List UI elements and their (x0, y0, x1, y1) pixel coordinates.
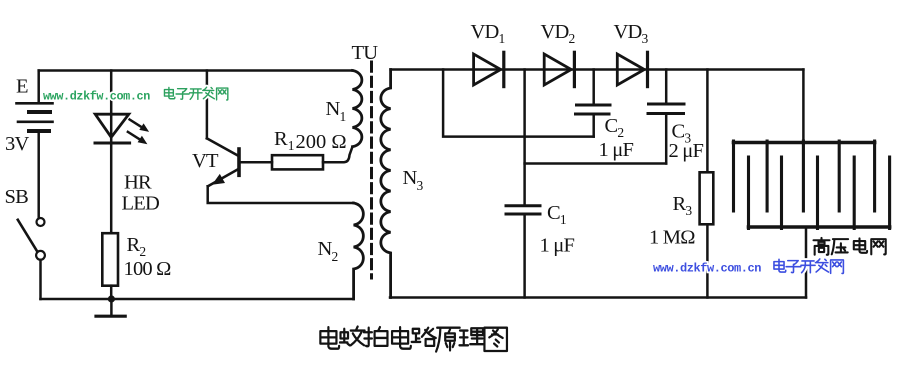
wire R1 to transformer tap (323, 148, 352, 162)
diode VD1 (474, 52, 504, 86)
capacitor C1 plates (506, 206, 540, 214)
transformer TU winding N3 (381, 70, 391, 298)
wire switch to bottom (39, 260, 42, 299)
HV grid bottom fingers (749, 157, 890, 229)
watermark green Chinese (164, 87, 227, 100)
wire battery top lead (37, 71, 40, 104)
wire R3 bottom lead (706, 224, 709, 297)
wire C2 return loop (443, 70, 594, 137)
resistor R2 box (102, 233, 118, 286)
transistor VT emitter with arrow (208, 169, 238, 186)
node junction dot R2/ground (108, 295, 115, 302)
svg-text:www.dzkfw.com.cn: www.dzkfw.com.cn (43, 90, 150, 104)
svg-text:1 μF: 1 μF (599, 139, 634, 161)
transformer TU winding N2 (354, 203, 364, 299)
svg-text:HR: HR (124, 172, 152, 194)
wire C3 bottom lead (665, 114, 668, 164)
svg-text:2 μF: 2 μF (669, 140, 704, 162)
wire VT base to R1 (241, 161, 272, 164)
wire bottom-right horizontal (390, 296, 806, 299)
svg-text:E: E (16, 76, 28, 98)
wire battery bottom lead (37, 131, 40, 218)
svg-text:3V: 3V (5, 133, 29, 155)
wire bottom-left horizontal (41, 298, 354, 301)
transformer core dashed line (370, 62, 373, 278)
resistor R3 box (700, 172, 714, 224)
wire R2 to node (110, 286, 113, 299)
ground bar (96, 315, 125, 318)
svg-text:1 MΩ: 1 MΩ (649, 227, 695, 249)
switch SB contact circle bottom (36, 251, 45, 260)
wire C2 bottom lead (592, 114, 595, 137)
HV grid top fingers (734, 141, 875, 211)
battery E plates (17, 103, 53, 131)
transistor VT base bar (237, 149, 241, 175)
wire top-right horizontal (391, 68, 804, 71)
HV grid top electrode bar (734, 141, 875, 145)
svg-text:1 μF: 1 μF (540, 235, 575, 257)
wire grid bottom feed (805, 229, 808, 298)
resistor R1 box (272, 155, 323, 169)
switch SB contact circle top (37, 218, 45, 226)
LED cathode bar (95, 142, 130, 145)
LED light arrow 1 (130, 120, 150, 132)
wire C3 top lead (665, 70, 668, 105)
diode VD3 (617, 52, 647, 86)
wire LED anode lead (110, 71, 113, 144)
wire R3 top lead (706, 70, 709, 173)
svg-text:LED: LED (122, 193, 159, 215)
wire LED to R2 (110, 143, 113, 233)
wire mid horizontal to C3 (525, 162, 667, 165)
wire VT collector vertical (206, 71, 209, 139)
wire grid top feed (802, 70, 805, 141)
svg-text:SB: SB (5, 186, 29, 208)
label HV grid (Chinese) 高压电网 (814, 238, 886, 255)
wire C1 bottom lead (523, 214, 526, 298)
transformer TU winding N1 (353, 71, 362, 147)
title 电蚊拍电路原理图 (320, 327, 507, 352)
capacitor C3 plates (648, 104, 684, 114)
diode VD2 (544, 52, 574, 86)
wire VT emitter corner (208, 186, 354, 203)
svg-text:VT: VT (192, 150, 219, 172)
LED HR triangle (95, 114, 129, 137)
svg-text:100 Ω: 100 Ω (124, 258, 172, 280)
switch SB arm (18, 220, 38, 252)
wire top-left horizontal (39, 69, 353, 72)
ground stub (110, 299, 113, 316)
LED light arrow 2 (128, 132, 147, 144)
HV grid bottom electrode bar (749, 225, 890, 229)
svg-text:TU: TU (352, 42, 379, 64)
svg-text:R1200 Ω: R1200 Ω (274, 128, 347, 153)
svg-text:www.dzkfw.com.cn: www.dzkfw.com.cn (653, 262, 761, 276)
watermark blue Chinese (774, 259, 843, 274)
capacitor C2 plates (576, 105, 611, 114)
wire C1 top lead (523, 70, 526, 206)
wire C2 top lead (592, 70, 595, 106)
transistor VT collector diagonal (207, 138, 238, 155)
